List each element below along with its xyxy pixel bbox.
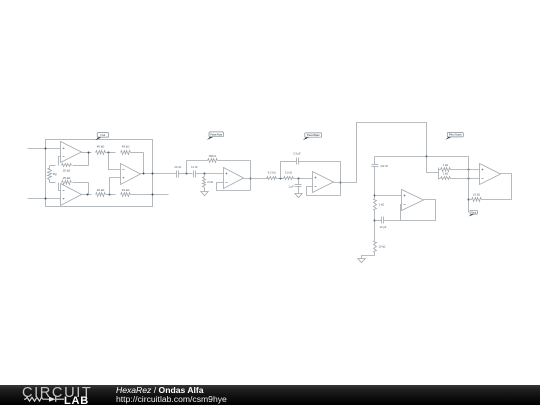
svg-text:11 nF: 11 nF — [191, 165, 198, 169]
svg-text:10 µF: 10 µF — [380, 225, 387, 229]
svg-text:Instr: Instr — [101, 134, 106, 137]
svg-text:110 nF: 110 nF — [380, 164, 388, 168]
svg-text:25 kΩ: 25 kΩ — [63, 176, 71, 180]
svg-text:25 kΩ: 25 kΩ — [63, 168, 71, 172]
svg-text:990 Ω: 990 Ω — [209, 154, 216, 158]
svg-text:49 kΩ: 49 kΩ — [97, 188, 105, 192]
svg-text:49 kΩ: 49 kΩ — [97, 145, 105, 149]
svg-text:Pasa Altas: Pasa Altas — [210, 133, 223, 136]
svg-text:1 kΩ: 1 kΩ — [443, 163, 448, 167]
svg-text:2 kΩ: 2 kΩ — [207, 180, 213, 184]
svg-text:20 nF: 20 nF — [174, 165, 181, 169]
svg-text:10 kΩ: 10 kΩ — [473, 193, 480, 197]
svg-text:Vout: Vout — [471, 211, 476, 214]
svg-text:Filtro Notch: Filtro Notch — [449, 134, 462, 137]
svg-text:49 kΩ: 49 kΩ — [122, 188, 130, 192]
svg-text:6.2 kΩ: 6.2 kΩ — [268, 170, 276, 174]
svg-text:11 kΩ: 11 kΩ — [285, 170, 292, 174]
svg-text:3.3 µF: 3.3 µF — [293, 152, 301, 156]
svg-text:1 µF: 1 µF — [288, 184, 294, 188]
svg-text:Rg: Rg — [53, 172, 57, 176]
svg-text:Pasa Bajas: Pasa Bajas — [307, 134, 320, 137]
svg-text:10 kΩ: 10 kΩ — [379, 245, 386, 249]
svg-text:1 kΩ: 1 kΩ — [379, 203, 384, 207]
svg-text:49 kΩ: 49 kΩ — [122, 145, 130, 149]
svg-text:1 kΩ: 1 kΩ — [443, 171, 448, 175]
